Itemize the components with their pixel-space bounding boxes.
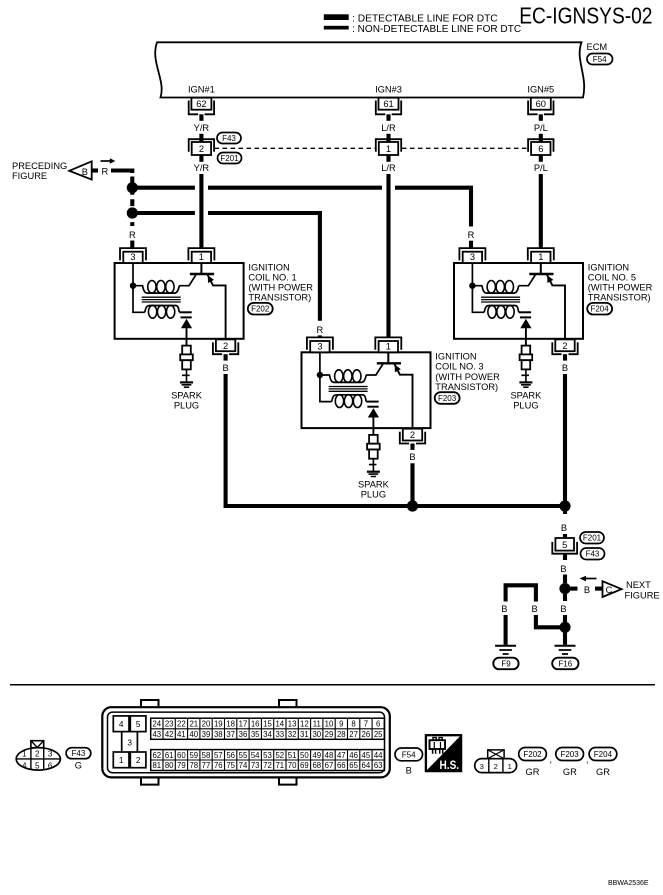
connector oval F43 [581, 548, 605, 560]
svg-text:C: C [606, 585, 613, 595]
svg-text:44: 44 [374, 751, 383, 760]
svg-text:B: B [560, 604, 566, 614]
svg-text:55: 55 [239, 751, 248, 760]
svg-text:5: 5 [35, 762, 40, 771]
svg-text:(WITH POWER: (WITH POWER [248, 283, 313, 293]
junction dot 1 [127, 182, 138, 193]
wire into connector [199, 134, 203, 142]
svg-text:63: 63 [374, 761, 383, 770]
svg-text:23: 23 [165, 720, 174, 729]
ground symbol F9 [495, 645, 516, 647]
junction dot ground [559, 622, 570, 633]
svg-text:14: 14 [275, 720, 284, 729]
bus junction dot coil3 [407, 500, 418, 511]
svg-text:COIL NO. 5: COIL NO. 5 [588, 272, 636, 282]
svg-text:19: 19 [214, 720, 223, 729]
svg-text:71: 71 [275, 761, 284, 770]
svg-text:2: 2 [136, 756, 141, 765]
H.S. symbol [426, 735, 461, 771]
svg-text:1: 1 [22, 750, 27, 759]
svg-text:Y/R: Y/R [194, 163, 210, 173]
connector oval F203 [435, 392, 460, 404]
svg-text:H.S.: H.S. [440, 760, 460, 772]
svg-text:2: 2 [494, 762, 498, 771]
connector oval F201 [218, 153, 242, 164]
svg-text:25: 25 [374, 730, 383, 739]
svg-text:62: 62 [152, 751, 161, 760]
svg-text:4: 4 [119, 720, 124, 729]
svg-text:IGN#1: IGN#1 [188, 85, 215, 95]
svg-text:B: B [531, 604, 537, 614]
wire stub below pin 60 [539, 114, 543, 121]
svg-text:GR: GR [563, 767, 577, 777]
wire stub below terminal 5 [563, 554, 567, 560]
svg-text:17: 17 [239, 720, 248, 729]
bus wire to ignition coil no.3 [136, 213, 320, 321]
svg-text:60: 60 [177, 751, 186, 760]
svg-text:15: 15 [263, 720, 272, 729]
svg-text:GR: GR [526, 767, 540, 777]
connector oval F203 [556, 748, 584, 761]
ECM pin 62 bracket [189, 101, 214, 115]
ignition coil no. 1 unit (F202) [115, 248, 244, 410]
ECM connector shell tabs [141, 700, 297, 707]
connector oval F54 [395, 748, 423, 761]
svg-text:TRANSISTOR): TRANSISTOR) [248, 293, 311, 303]
svg-text:IGNITION: IGNITION [435, 352, 476, 362]
junction dot 2 [127, 207, 138, 218]
svg-text:60: 60 [536, 99, 546, 109]
svg-text:G: G [75, 761, 82, 771]
svg-text:80: 80 [165, 761, 174, 770]
svg-text:61: 61 [383, 99, 393, 109]
svg-text:NEXT: NEXT [626, 580, 651, 590]
svg-text:F204: F204 [594, 750, 613, 759]
svg-text:,: , [550, 755, 553, 765]
svg-text:20: 20 [202, 720, 211, 729]
3-pin connector view [475, 759, 517, 773]
svg-text:F16: F16 [558, 659, 572, 668]
connector oval F16 [552, 658, 578, 670]
inline connector terminal 1 bracket [376, 139, 401, 152]
next figure triangle C [603, 581, 622, 597]
svg-text:B: B [561, 523, 567, 533]
svg-text:B: B [406, 766, 412, 776]
svg-text:48: 48 [325, 751, 334, 760]
svg-text:78: 78 [189, 761, 198, 770]
svg-text:L/R: L/R [381, 123, 396, 133]
connector oval F43 [217, 133, 241, 144]
coil5 B wire down [563, 374, 567, 506]
svg-text:R: R [129, 230, 136, 240]
svg-text:B: B [584, 585, 590, 595]
svg-text:18: 18 [226, 720, 235, 729]
svg-text:4: 4 [22, 762, 27, 771]
svg-text:79: 79 [177, 761, 186, 770]
svg-text:46: 46 [349, 751, 358, 760]
svg-text:59: 59 [189, 751, 198, 760]
svg-text:R: R [101, 167, 108, 177]
svg-text:11: 11 [313, 720, 321, 729]
wire into connector [539, 134, 543, 142]
svg-text:57: 57 [214, 751, 223, 760]
ECM box [155, 42, 584, 97]
svg-text:IGN#5: IGN#5 [527, 85, 554, 95]
svg-text:77: 77 [202, 761, 211, 770]
svg-text:B: B [82, 167, 88, 177]
svg-text:R: R [317, 325, 324, 335]
svg-text:6: 6 [538, 144, 543, 154]
dashed B wire below bus [563, 506, 567, 514]
svg-text:F201: F201 [583, 534, 602, 543]
svg-text:30: 30 [312, 730, 321, 739]
svg-text:33: 33 [275, 730, 284, 739]
svg-text:F202: F202 [251, 305, 270, 314]
svg-text:45: 45 [362, 751, 371, 760]
svg-text:73: 73 [251, 761, 260, 770]
svg-text:22: 22 [177, 720, 186, 729]
svg-text:1: 1 [508, 762, 512, 771]
svg-text:52: 52 [275, 751, 284, 760]
inline connector terminal 2 bracket [189, 139, 214, 152]
svg-text:3: 3 [127, 738, 132, 747]
svg-text:IGNITION: IGNITION [248, 262, 289, 272]
svg-text:67: 67 [325, 761, 334, 770]
ECM pin grid [151, 718, 385, 739]
dashed wire R to junction [111, 171, 132, 174]
svg-text:1: 1 [119, 756, 124, 765]
dashed B wire down [563, 594, 567, 601]
inline connector terminal 6 bracket [528, 139, 553, 152]
coil3 B wire down [410, 463, 414, 506]
svg-text:10: 10 [325, 720, 334, 729]
ground branch wires [504, 615, 508, 645]
svg-text:1: 1 [386, 144, 391, 154]
ECM pin 61 box [379, 98, 399, 110]
svg-text:: DETECTABLE LINE FOR DTC: : DETECTABLE LINE FOR DTC [352, 13, 498, 24]
svg-text:P/L: P/L [534, 163, 548, 173]
ECM pin 62 box [191, 98, 211, 110]
bus wire to ignition coil no.5 [136, 188, 471, 227]
svg-text:39: 39 [202, 730, 211, 739]
svg-text:43: 43 [152, 730, 161, 739]
connector oval F202 [248, 303, 273, 315]
svg-text:F54: F54 [402, 750, 416, 759]
connector oval F43 [66, 748, 91, 759]
inline connector terminal 6 box [531, 142, 550, 155]
svg-text:5: 5 [136, 720, 141, 729]
svg-text:IGN#3: IGN#3 [375, 85, 402, 95]
svg-text:F202: F202 [523, 750, 542, 759]
svg-text:54: 54 [251, 751, 260, 760]
wire stub below pin 62 [199, 114, 203, 121]
svg-text:36: 36 [239, 730, 248, 739]
svg-text:GR: GR [596, 767, 610, 777]
svg-text:B: B [560, 564, 566, 574]
svg-text:34: 34 [263, 730, 272, 739]
svg-text:40: 40 [189, 730, 198, 739]
svg-text:R: R [468, 230, 475, 240]
svg-text:21: 21 [189, 720, 198, 729]
svg-text:12: 12 [300, 720, 309, 729]
svg-text:38: 38 [214, 730, 223, 739]
svg-text:(WITH POWER: (WITH POWER [588, 283, 653, 293]
svg-text:B: B [501, 604, 507, 614]
svg-text:PRECEDING: PRECEDING [12, 161, 67, 171]
svg-text:61: 61 [165, 751, 174, 760]
svg-text:(WITH POWER: (WITH POWER [435, 372, 500, 382]
svg-text:47: 47 [337, 751, 346, 760]
svg-text:50: 50 [300, 751, 309, 760]
svg-text:F203: F203 [560, 750, 579, 759]
wire into connector [386, 134, 390, 142]
terminal boxes 4 5 3 1 2 [113, 716, 129, 732]
svg-text:F43: F43 [586, 550, 600, 559]
inline connector terminal 1 box [379, 142, 398, 155]
ground symbol F16 [555, 645, 576, 647]
preceding figure triangle B [69, 161, 91, 179]
svg-text:56: 56 [226, 751, 235, 760]
svg-text:32: 32 [288, 730, 297, 739]
ECM connector outer shell [102, 707, 390, 777]
svg-text:TRANSISTOR): TRANSISTOR) [435, 382, 498, 392]
legend non-detectable line sample [324, 26, 349, 30]
ECM pin 60 box [531, 98, 551, 110]
connector notch [31, 741, 44, 748]
wire stub below connector 2 [199, 155, 203, 162]
inline connector terminal 5 box [555, 538, 574, 551]
ECM connector inner shell [108, 712, 385, 773]
arrow left [584, 578, 597, 580]
svg-text:6: 6 [376, 720, 380, 729]
svg-text:31: 31 [300, 730, 309, 739]
svg-text:76: 76 [214, 761, 223, 770]
svg-text:F204: F204 [590, 305, 609, 314]
svg-text:F9: F9 [501, 659, 511, 668]
ECM pin 61 bracket [376, 101, 401, 115]
svg-text:: NON-DETECTABLE LINE FOR DTC: : NON-DETECTABLE LINE FOR DTC [352, 24, 521, 35]
svg-text:2: 2 [199, 144, 204, 154]
connector index box [488, 750, 504, 759]
svg-text:81: 81 [152, 761, 161, 770]
svg-text:66: 66 [337, 761, 346, 770]
svg-text:7: 7 [364, 720, 368, 729]
svg-text:ECM: ECM [587, 42, 608, 52]
svg-text:5: 5 [562, 540, 567, 550]
P/L wire down to coil5 pin1 [539, 174, 543, 249]
svg-text:51: 51 [288, 751, 297, 760]
svg-text:F201: F201 [220, 154, 239, 163]
svg-text:27: 27 [349, 730, 358, 739]
svg-text:F203: F203 [438, 394, 457, 403]
svg-text:L/R: L/R [381, 163, 396, 173]
svg-text:2: 2 [35, 750, 40, 759]
svg-text:BBWA2536E: BBWA2536E [608, 880, 649, 887]
svg-text:6: 6 [48, 762, 53, 771]
svg-text:F43: F43 [72, 749, 86, 758]
svg-text:62: 62 [196, 99, 206, 109]
svg-text:41: 41 [177, 730, 186, 739]
connector oval F204 [587, 303, 612, 315]
svg-text:P/L: P/L [534, 123, 548, 133]
wire from preceding figure (R) [92, 168, 99, 172]
junction dot next-figure [559, 583, 570, 594]
legend detectable line sample [324, 14, 349, 20]
dashed stub to coil1 pin3 [130, 241, 134, 249]
divider line [10, 684, 655, 686]
svg-text:3: 3 [480, 762, 484, 771]
svg-text:IGNITION: IGNITION [588, 262, 629, 272]
svg-text:F54: F54 [593, 55, 607, 64]
svg-text:TRANSISTOR): TRANSISTOR) [588, 293, 651, 303]
ignition coil no. 5 unit (F204) [454, 248, 583, 410]
svg-text:35: 35 [251, 730, 260, 739]
svg-text:Y/R: Y/R [194, 123, 210, 133]
dashed wire to next figure [571, 587, 578, 591]
ignition coil no. 3 unit (F203) [302, 337, 431, 499]
ECM pin 60 bracket [528, 101, 553, 115]
svg-text:24: 24 [152, 720, 161, 729]
svg-text:70: 70 [288, 761, 297, 770]
svg-text:68: 68 [312, 761, 321, 770]
svg-text:13: 13 [288, 720, 297, 729]
connector oval F201 [580, 532, 604, 544]
svg-text:65: 65 [349, 761, 358, 770]
svg-text:69: 69 [300, 761, 309, 770]
svg-text:9: 9 [339, 720, 343, 729]
connector oval F202 [519, 748, 547, 761]
svg-text:FIGURE: FIGURE [12, 171, 47, 181]
svg-text:64: 64 [362, 761, 371, 770]
svg-text:37: 37 [226, 730, 235, 739]
inline connector terminal 2 box [192, 142, 211, 155]
L/R wire down to coil3 pin1 [386, 174, 390, 338]
svg-text:72: 72 [263, 761, 272, 770]
connector oval F9 [493, 658, 518, 670]
ground stub F16 [563, 632, 567, 645]
bus junction dot coil5 [559, 500, 570, 511]
svg-text:29: 29 [325, 730, 334, 739]
svg-text:28: 28 [337, 730, 346, 739]
inline connector terminal 5 bracket [552, 542, 577, 554]
svg-text:53: 53 [263, 751, 272, 760]
svg-text:COIL NO. 1: COIL NO. 1 [248, 272, 296, 282]
ECM connector oval F54 [587, 54, 613, 65]
svg-text:8: 8 [351, 720, 355, 729]
svg-text:42: 42 [165, 730, 174, 739]
svg-text:COIL NO. 3: COIL NO. 3 [435, 362, 483, 372]
connector oval F204 [589, 748, 617, 761]
svg-text:3: 3 [48, 750, 53, 759]
svg-text:16: 16 [251, 720, 260, 729]
coil1 B wire down and ground bus [226, 374, 565, 506]
svg-text:FIGURE: FIGURE [625, 591, 660, 601]
svg-text:74: 74 [239, 761, 248, 770]
small oval connector F43 view [16, 748, 60, 770]
svg-text:F43: F43 [222, 134, 236, 143]
wire stub below pin 61 [386, 114, 390, 121]
inline connector dashed link [215, 147, 528, 149]
wire stub below connector 1 [386, 155, 390, 162]
arrow right [101, 160, 111, 162]
svg-text:49: 49 [312, 751, 321, 760]
H.S. tool icon [430, 740, 446, 749]
svg-text:EC-IGNSYS-02: EC-IGNSYS-02 [519, 3, 652, 29]
svg-text:26: 26 [362, 730, 371, 739]
wire stub below connector 6 [539, 155, 543, 162]
svg-text:75: 75 [226, 761, 235, 770]
svg-text:58: 58 [202, 751, 211, 760]
Y/R wire down to coil1 pin1 [199, 174, 203, 249]
svg-text:,: , [586, 755, 589, 765]
